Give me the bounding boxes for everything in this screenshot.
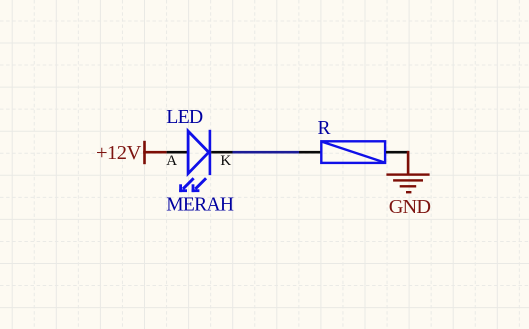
resistor R body box bbox=[321, 141, 385, 163]
LED light emission arrow 2 bbox=[192, 177, 208, 192]
wire from +12V bar (dark red segment) bbox=[143, 151, 166, 154]
ground bar 1 bbox=[386, 173, 429, 175]
svg-text:MERAH: MERAH bbox=[166, 195, 234, 216]
resistor left pin (black) bbox=[299, 151, 321, 154]
power port +12V bar bbox=[143, 141, 146, 164]
svg-text:K: K bbox=[220, 153, 231, 169]
LED triangle (anode) bbox=[188, 131, 209, 174]
svg-text:+12V: +12V bbox=[96, 142, 142, 164]
svg-text:A: A bbox=[166, 153, 177, 169]
svg-text:R: R bbox=[318, 118, 331, 139]
ground bar 2 bbox=[393, 179, 423, 181]
ground bar 3 bbox=[400, 185, 417, 187]
svg-text:GND: GND bbox=[389, 196, 431, 218]
wire resistor to ground (black) bbox=[386, 151, 409, 154]
wire pin A segment (black) bbox=[167, 151, 189, 154]
svg-text:LED: LED bbox=[166, 106, 203, 128]
pin K segment (black) bbox=[211, 151, 232, 154]
LED light emission arrow 1 bbox=[179, 177, 195, 192]
ground bar 4 bbox=[406, 191, 411, 193]
ground lead (dark red vertical) bbox=[407, 151, 410, 175]
wire LED to resistor (navy) bbox=[233, 151, 300, 154]
LED cathode bar bbox=[209, 130, 212, 175]
resistor diagonal stroke bbox=[321, 142, 385, 163]
